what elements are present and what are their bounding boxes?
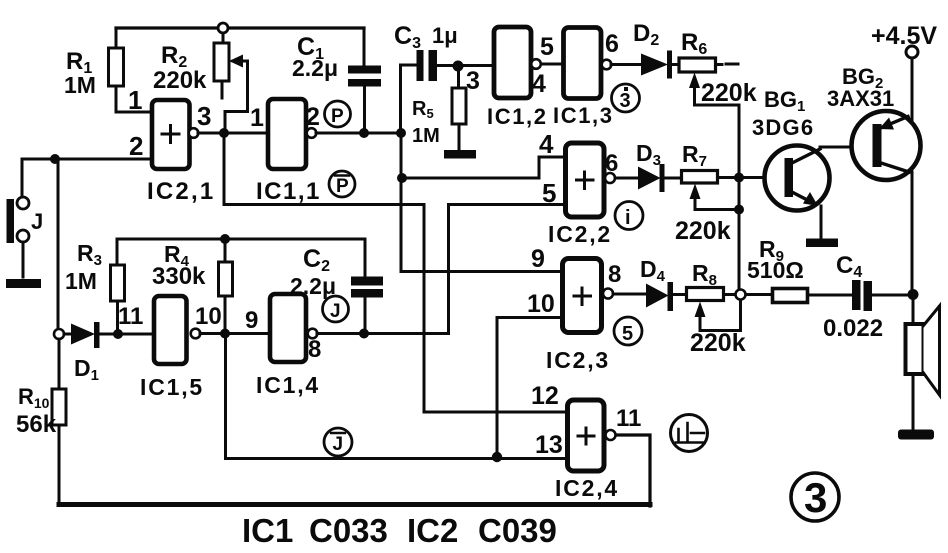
wire IC2,3 out to D4 bbox=[613, 293, 648, 296]
svg-text:4: 4 bbox=[532, 70, 546, 98]
svg-text:3AX31: 3AX31 bbox=[827, 86, 894, 111]
wire left bus down to D1 bbox=[57, 159, 60, 329]
wire R2 wiper arm to pin3 node bbox=[225, 61, 248, 130]
node pin3 of IC1,2 bbox=[453, 61, 464, 72]
jack J contacts bbox=[17, 197, 29, 209]
svg-text:R10: R10 bbox=[18, 384, 50, 411]
svg-text:IC2,2: IC2,2 bbox=[548, 221, 612, 247]
svg-text:12: 12 bbox=[531, 382, 559, 410]
wire R5 bottom lead bbox=[458, 124, 461, 150]
svg-text:IC2,1: IC2,1 bbox=[147, 178, 215, 205]
bubble IC2,4 output bbox=[606, 430, 616, 440]
wire node to speaker bbox=[912, 295, 915, 325]
svg-text:1M: 1M bbox=[412, 125, 440, 147]
svg-text:C039: C039 bbox=[478, 512, 557, 549]
wire R3 bottom lead bbox=[116, 301, 119, 334]
wire P net: IC1,1 out to C3 riser bbox=[316, 132, 401, 135]
wire riser to C3 bbox=[401, 65, 417, 133]
node R2 top (open circle) bbox=[218, 23, 228, 33]
node jack junction bbox=[50, 154, 60, 164]
transistor BG1 bbox=[765, 146, 830, 211]
svg-text:3: 3 bbox=[466, 67, 480, 95]
wire bottom feedback bus bbox=[59, 502, 650, 507]
resistor R7 (pot) bbox=[682, 171, 718, 184]
wire IC1,2 out to IC1,3 in bbox=[541, 63, 562, 66]
wire D1 to IC1,5 pin 11 bbox=[99, 333, 153, 336]
wire branch to IC2,2 pin4 bbox=[402, 157, 564, 178]
wire down to jack tip bbox=[21, 159, 24, 197]
ground (speaker) bbox=[898, 430, 934, 440]
svg-text:1μ: 1μ bbox=[432, 23, 458, 48]
wire D2 to R6 bbox=[672, 63, 679, 66]
wire top rail R1-R2-C1 bbox=[116, 26, 364, 29]
wire BG1 emitter to ground bbox=[820, 206, 823, 238]
svg-text:R6: R6 bbox=[681, 29, 707, 58]
wire top rail R3-R4-C2 bbox=[117, 238, 365, 241]
svg-text:IC2: IC2 bbox=[407, 512, 458, 549]
svg-text:0.022: 0.022 bbox=[823, 315, 883, 342]
svg-text:11: 11 bbox=[616, 405, 641, 432]
svg-text:BG1: BG1 bbox=[764, 87, 805, 115]
wire R7 to BG1 base bbox=[718, 176, 786, 179]
svg-text:5: 5 bbox=[542, 178, 556, 208]
node C1 bottom junction bbox=[359, 128, 369, 138]
wire BG1 collector to BG2 base bbox=[820, 146, 872, 149]
node C3 riser junction bbox=[396, 128, 406, 138]
wire D1 node to R10 bbox=[58, 339, 61, 389]
inverter IC1,1 bbox=[268, 99, 306, 169]
node pulse symbol (circled) bbox=[671, 415, 708, 452]
wire R8 to node bbox=[724, 293, 736, 296]
wire R1 top lead bbox=[115, 28, 118, 48]
svg-text:J: J bbox=[330, 301, 341, 322]
resistor R6 (pot) bbox=[679, 58, 716, 72]
svg-text:C4: C4 bbox=[836, 252, 862, 281]
svg-text:3: 3 bbox=[804, 474, 827, 521]
wire Jbar net: to IC2,4 pin13 bbox=[226, 338, 567, 459]
svg-text:6: 6 bbox=[605, 30, 619, 58]
wire speaker to ground bbox=[912, 374, 915, 430]
wire R1 bottom to IC2,1 pin 1 bbox=[116, 86, 151, 112]
svg-text:8: 8 bbox=[308, 336, 321, 363]
svg-text:R3: R3 bbox=[77, 240, 102, 269]
op-amp IC2,2 bbox=[566, 143, 605, 217]
svg-text:1: 1 bbox=[250, 104, 264, 132]
svg-text:D4: D4 bbox=[640, 256, 666, 285]
bubble IC2,2 output bbox=[605, 173, 615, 183]
supply terminal bbox=[906, 46, 918, 58]
node P (circled) bbox=[325, 101, 351, 127]
resistor R2 (trimmer) bbox=[214, 43, 229, 81]
wire R2 top lead bbox=[222, 33, 225, 43]
node R8 output (open circle) bbox=[736, 290, 746, 300]
diode D1 bbox=[54, 329, 64, 339]
svg-text:5: 5 bbox=[622, 323, 633, 345]
svg-text:220k: 220k bbox=[675, 217, 731, 245]
op-amp IC2,1 bbox=[152, 100, 190, 169]
wire jack sleeve to ground bbox=[22, 242, 25, 277]
svg-text:P: P bbox=[336, 176, 349, 197]
wire Pbar net: pin3 node down, across, down to IC2,4 pin12 bbox=[224, 138, 566, 412]
svg-text:10: 10 bbox=[195, 303, 222, 330]
resistor R5 bbox=[452, 88, 466, 124]
wire BG2 collector down to speaker node bbox=[911, 172, 914, 294]
svg-text:220k: 220k bbox=[701, 79, 757, 107]
wire R9 to C4 bbox=[808, 294, 853, 297]
svg-text:R7: R7 bbox=[682, 141, 707, 170]
svg-text:3: 3 bbox=[197, 101, 211, 131]
svg-text:D3: D3 bbox=[636, 140, 661, 169]
svg-text:56k: 56k bbox=[16, 411, 57, 438]
svg-text:+4.5V: +4.5V bbox=[871, 22, 937, 50]
svg-text:IC1,5: IC1,5 bbox=[140, 374, 204, 400]
ground (jack) bbox=[6, 279, 41, 288]
resistor R10 bbox=[52, 389, 66, 425]
wire R10 to bottom bus bbox=[58, 425, 61, 502]
svg-text:P: P bbox=[331, 106, 344, 127]
resistor R8 (pot) bbox=[687, 288, 724, 301]
svg-text:510Ω: 510Ω bbox=[747, 257, 804, 283]
node C2 bottom junction bbox=[359, 329, 369, 339]
capacitor C1 bbox=[363, 28, 366, 65]
svg-text:9: 9 bbox=[531, 245, 545, 273]
inverter IC1,5 bbox=[154, 296, 187, 364]
node i (circled) bbox=[615, 202, 643, 230]
node Pbar (circled) bbox=[329, 171, 355, 197]
svg-text:11: 11 bbox=[118, 303, 143, 330]
node 3dot (circled) bbox=[612, 84, 640, 112]
resistor R9 bbox=[773, 289, 808, 303]
svg-text:IC1: IC1 bbox=[242, 512, 293, 549]
wire R3 top lead bbox=[116, 239, 119, 265]
node Jbar (circled) bbox=[324, 428, 352, 456]
bubble IC1,4 output bbox=[308, 329, 318, 339]
wire J net: IC1,4 out up to IC2,2 pin 5 bbox=[317, 205, 564, 334]
svg-text:J: J bbox=[333, 434, 344, 455]
svg-text:D1: D1 bbox=[74, 355, 99, 384]
inverter IC1,3 bbox=[564, 28, 602, 99]
capacitor C3 bbox=[417, 50, 424, 81]
svg-text:IC1,4: IC1,4 bbox=[256, 372, 320, 398]
wire C3 to IC1,2 input bbox=[437, 64, 493, 67]
svg-text:C033: C033 bbox=[309, 512, 388, 549]
node pin4 branch bbox=[397, 173, 407, 183]
svg-text:R5: R5 bbox=[412, 98, 434, 121]
diode D4 bbox=[646, 284, 669, 308]
wire supply to BG2 emitter bbox=[911, 58, 914, 120]
page number 3 (circled) bbox=[791, 473, 839, 521]
svg-text:2: 2 bbox=[306, 103, 320, 131]
inverter IC1,4 bbox=[270, 294, 306, 362]
svg-text:220k: 220k bbox=[690, 329, 746, 357]
wire D4 to R8 bbox=[673, 293, 686, 296]
wire R2 bottom stub bbox=[221, 81, 224, 98]
wire jack top to IC2,1 pin 2 bbox=[22, 158, 151, 161]
svg-text:D2: D2 bbox=[633, 20, 659, 49]
resistor R1 bbox=[109, 48, 124, 86]
svg-text:9: 9 bbox=[245, 307, 258, 334]
wire IC1,3 out to D2 bbox=[611, 63, 642, 66]
svg-text:1M: 1M bbox=[65, 268, 97, 294]
svg-text:3: 3 bbox=[620, 90, 631, 112]
wire IC1,5 out to IC1,4 in bbox=[200, 332, 269, 335]
wire pot bus vertical bbox=[738, 105, 741, 290]
bubble IC2,3 output bbox=[603, 289, 613, 299]
node 5 (circled) bbox=[614, 317, 642, 345]
wire pin9 run to IC2,3 bbox=[401, 270, 561, 273]
capacitor C4 bbox=[852, 280, 861, 310]
node Jbar pin10 riser junction bbox=[492, 452, 502, 462]
svg-text:5: 5 bbox=[540, 33, 554, 61]
svg-text:i: i bbox=[625, 207, 631, 229]
svg-text:IC2,4: IC2,4 bbox=[555, 475, 619, 501]
wiper R7 arrow bbox=[695, 195, 739, 210]
node R3 bottom junction bbox=[113, 329, 123, 339]
wire C4 to speaker node bbox=[872, 294, 913, 297]
bubble IC1,5 output bbox=[191, 329, 201, 339]
svg-text:1: 1 bbox=[128, 85, 142, 115]
svg-text:3DG6: 3DG6 bbox=[752, 115, 814, 140]
jack plug bar bbox=[7, 199, 15, 243]
node R4 top bbox=[220, 234, 230, 244]
node wiper R7 joins bus bbox=[734, 205, 744, 215]
ground (R5) bbox=[444, 150, 476, 159]
svg-text:10: 10 bbox=[527, 290, 555, 318]
wiper R8 arrow loop bbox=[700, 300, 741, 331]
inverter IC1,2 bbox=[494, 27, 531, 98]
svg-text:IC1,3: IC1,3 bbox=[553, 103, 614, 128]
svg-text:IC1,1: IC1,1 bbox=[256, 178, 321, 205]
wire node to R9 bbox=[746, 293, 772, 296]
bubble IC1,2 output bbox=[531, 59, 541, 69]
wire IC2,1 out to IC1,1 in bbox=[198, 132, 268, 135]
wire R4 bottom lead bbox=[224, 296, 227, 333]
bubble IC1,1 output bbox=[307, 128, 317, 138]
resistor R4 bbox=[219, 262, 233, 296]
node J (circled) bbox=[323, 296, 349, 322]
node pot bus x base wire bbox=[734, 173, 744, 183]
op-amp IC2,3 bbox=[563, 259, 602, 333]
svg-text:C3: C3 bbox=[394, 22, 421, 52]
svg-text:4: 4 bbox=[539, 129, 554, 159]
wire R4 top lead bbox=[224, 239, 227, 262]
svg-text:1M: 1M bbox=[64, 72, 96, 98]
wire R5 top lead bbox=[457, 66, 460, 88]
node speaker top bbox=[908, 289, 919, 300]
arrowhead R2 wiper bbox=[229, 55, 243, 68]
svg-text:330k: 330k bbox=[152, 263, 206, 290]
node pin3 junction bbox=[219, 128, 229, 138]
svg-text:IC2,3: IC2,3 bbox=[546, 347, 610, 373]
bubble IC1,3 output bbox=[602, 60, 612, 70]
svg-text:2: 2 bbox=[129, 131, 143, 161]
svg-text:J: J bbox=[31, 209, 43, 234]
diode D2 bbox=[641, 54, 668, 76]
wire P net drop to pin4/pin9 bbox=[400, 133, 403, 272]
resistor R3 bbox=[111, 265, 125, 301]
diode D3 bbox=[638, 167, 661, 190]
svg-text:8: 8 bbox=[608, 261, 621, 288]
wiper R6 arrow bbox=[695, 84, 740, 105]
svg-text:220k: 220k bbox=[153, 67, 207, 94]
svg-text:13: 13 bbox=[535, 431, 563, 459]
svg-text:R8: R8 bbox=[692, 260, 717, 289]
wire riser to IC2,3 pin 10 bbox=[497, 318, 561, 458]
speaker bbox=[906, 306, 940, 395]
node Jbar junction bbox=[220, 329, 230, 339]
capacitor C2 bbox=[364, 239, 367, 276]
wire D3 to R7 bbox=[664, 177, 681, 180]
wire R6 dashed output bbox=[716, 63, 739, 67]
svg-text:IC1,2: IC1,2 bbox=[487, 104, 548, 129]
svg-text:C2: C2 bbox=[303, 245, 330, 275]
ground (BG1) bbox=[806, 239, 838, 248]
transistor BG2 bbox=[852, 111, 921, 180]
op-amp IC2,4 bbox=[568, 400, 605, 471]
svg-text:2.2μ: 2.2μ bbox=[292, 55, 338, 81]
bubble IC2,1 output bbox=[189, 128, 199, 138]
wire IC2,2 out to D3 bbox=[615, 177, 640, 180]
